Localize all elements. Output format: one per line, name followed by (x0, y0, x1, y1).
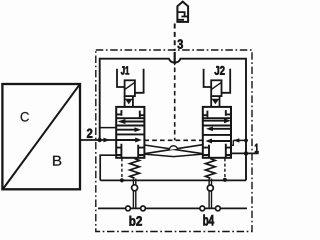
solenoid J2 coil (211, 80, 221, 96)
crossover wire A (144, 145, 202, 154)
label 2 (87, 129, 92, 138)
label 1 (255, 144, 259, 153)
label b2 (130, 216, 142, 226)
valve J1 poppet neck (125, 96, 133, 107)
solenoid J1 terminals (117, 69, 144, 93)
roller J2 (207, 185, 213, 191)
valve J1 pilot drain (dashed) (121, 158, 123, 178)
label b4 (203, 215, 214, 226)
port line 2 (80, 138, 116, 143)
solenoid J2 terminals (204, 69, 231, 93)
cam rail (98, 207, 247, 209)
feed stub into valve J2 (231, 138, 248, 145)
drain loop left (100, 155, 116, 180)
valve J2 lower seats (203, 144, 231, 158)
component B/C (converter box) (2, 84, 80, 189)
cam roller b2 right (141, 206, 146, 211)
valve J2 divider (203, 117, 231, 119)
label B (53, 156, 61, 166)
valve J1 body (116, 107, 144, 158)
rocker lever (144, 154, 202, 157)
valve J2 pilot drain (dashed) (224, 158, 226, 178)
junction dot (223, 178, 227, 182)
valve J2 poppet neck (211, 96, 219, 107)
valve J2 divider (203, 134, 231, 136)
label J2 (215, 66, 225, 75)
pilot dashed cross line (144, 139, 202, 141)
valve J1 divider (116, 117, 144, 119)
cam roller b2 left (126, 206, 131, 211)
label C (21, 112, 29, 122)
central pilot dashed line (174, 68, 176, 141)
valve J1 return spring (130, 159, 140, 179)
valve J2 upper seats (203, 110, 231, 117)
drain gallery wire (100, 179, 246, 181)
junction dot (120, 178, 124, 182)
branch wire to valve J1 (100, 127, 117, 129)
valve J1 upper seats (116, 110, 144, 117)
valve J2 flow arrow right (203, 118, 231, 123)
valve J2 divider (203, 125, 231, 127)
enclosure (dash-dot boundary) (96, 50, 252, 232)
valve J1 divider (116, 133, 144, 135)
label J1 (121, 66, 129, 74)
cam roller b4 right (216, 206, 221, 211)
solenoid J1 coil (125, 80, 135, 96)
crossover wire B with hop (144, 145, 202, 154)
label 3 (178, 39, 183, 48)
valve J2 roller stem (209, 179, 211, 208)
muffler/breather (177, 2, 188, 22)
internal supply rail (solid inner box) (100, 59, 246, 181)
valve J1 lower seats (116, 144, 144, 158)
port line 1 (231, 151, 259, 155)
valve J1 roller stem (133, 179, 135, 208)
valve J1 divider (116, 125, 144, 127)
arrow into enclosure (174, 52, 176, 63)
valve J1 flow arrow left (117, 119, 144, 124)
valve J2 body (203, 107, 231, 158)
cam roller b4 left (200, 206, 205, 211)
pilot feed dashed line from muffler (174, 24, 176, 52)
valve J1 inlet arrow (116, 138, 142, 143)
roller J1 (132, 185, 138, 191)
valve J2 flow arrow left (206, 127, 231, 132)
valve J2 inlet arrow (205, 139, 231, 144)
valve J2 return spring (206, 159, 216, 179)
valve J1 flow arrow right (116, 127, 141, 132)
